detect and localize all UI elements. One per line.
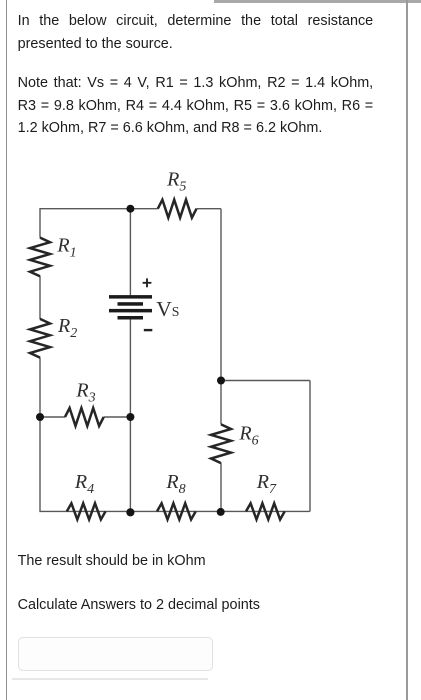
battery plate short bottom <box>118 316 144 320</box>
svg-text:R4: R4 <box>74 471 94 497</box>
svg-text:R5: R5 <box>166 169 186 195</box>
svg-text:R6: R6 <box>238 423 258 449</box>
plus sign <box>143 278 152 287</box>
wire: R3 left lead <box>40 416 65 418</box>
resistor R7 zigzag (bottom rail) <box>246 503 285 519</box>
node: bottom right-middle <box>217 508 225 516</box>
labels <box>56 169 277 498</box>
wire: R5 right lead to top-right corner <box>197 208 222 210</box>
circuit schematic <box>0 160 421 550</box>
wire: junction to R6 top <box>220 381 222 425</box>
wire: middle rail dot to battery top <box>129 209 131 296</box>
node: bottom middle <box>126 508 134 516</box>
wire: battery bottom to bottom rail <box>129 320 131 513</box>
paragraph: note with values <box>18 72 374 140</box>
battery plate short <box>118 302 144 306</box>
battery plate long <box>109 309 152 313</box>
wire: left rail between R1 and R2 <box>39 276 41 319</box>
node: top junction (middle rail / top wire) <box>126 205 134 213</box>
battery Vs <box>109 295 152 319</box>
svg-text:R7: R7 <box>256 471 277 497</box>
line: decimal points <box>18 594 260 617</box>
wire: junction to far-right corner <box>221 380 310 382</box>
svg-text:R2: R2 <box>57 315 77 341</box>
resistor R3 zigzag (horizontal) <box>65 408 104 426</box>
line: result unit <box>18 550 206 573</box>
node: R3 right <box>126 413 134 421</box>
svg-text:R1: R1 <box>56 235 76 261</box>
wire top-left: left rail top corner to R5 left lead <box>40 208 158 210</box>
wire: left rail top segment (corner to R1) <box>39 208 41 238</box>
answer input box <box>18 637 213 671</box>
svg-text:R8: R8 <box>165 471 185 497</box>
battery plate long top <box>109 295 152 299</box>
wire: right-middle rail top corner down to junction <box>220 209 222 381</box>
wire: R3 right lead <box>104 416 131 418</box>
resistor R4 zigzag (bottom rail) <box>67 503 106 519</box>
resistor R5 zigzag (horizontal, top) <box>158 200 197 218</box>
wire: far-right rail down <box>309 381 311 512</box>
resistor R8 zigzag (bottom rail) <box>157 503 196 519</box>
resistor R2 zigzag (vertical, left rail lower) <box>30 319 50 358</box>
svg-text:VS: VS <box>156 297 179 321</box>
paragraph: problem statement <box>18 10 374 55</box>
node: R3 left <box>36 413 44 421</box>
wire: R6 bottom to bottom rail <box>220 463 222 512</box>
resistor R6 zigzag (vertical, right-middle rail) <box>211 424 231 463</box>
wire: left rail R2 to bottom-left corner <box>39 358 41 513</box>
node: right-middle junction <box>217 377 225 385</box>
svg-text:R3: R3 <box>75 379 95 405</box>
junction dots <box>36 205 225 517</box>
wire: bottom rail <box>40 510 310 512</box>
minus sign <box>144 329 153 331</box>
resistor R1 zigzag (vertical, left rail upper) <box>30 238 50 277</box>
